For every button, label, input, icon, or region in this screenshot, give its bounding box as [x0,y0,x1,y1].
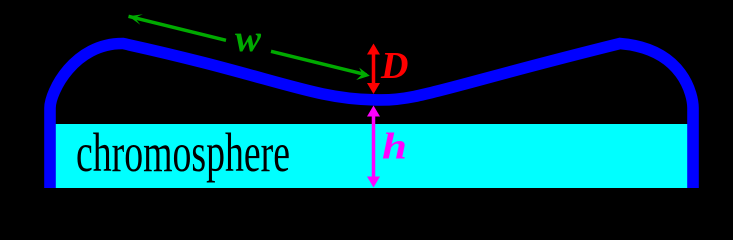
svg-text:h: h [382,127,407,168]
arrow w (width), double-headed diagonal [129,16,367,75]
arrow D (depth), red vertical double arrow [367,44,380,95]
svg-text:w: w [235,18,262,60]
left arrowhead [129,14,143,25]
chromosphere slab [54,124,689,188]
svg-text:D: D [380,45,408,87]
right arrowhead [356,68,370,80]
svg-text:chromosphere: chromosphere [76,122,290,183]
wire shaft right segment [271,51,367,75]
wire shaft left segment [129,16,227,40]
arrow h (height), magenta vertical double arrow [367,106,380,188]
flux-rope surface curve [50,43,693,188]
